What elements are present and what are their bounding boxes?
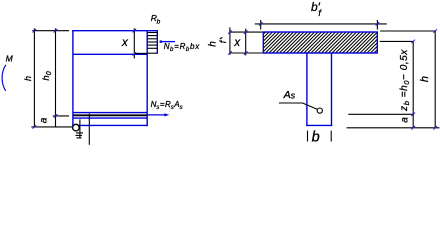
tick b'f right [376, 22, 380, 26]
extension at compression zone bottom [134, 52, 147, 54]
extension line rebar level (right) [348, 113, 413, 115]
dimension line h0 (inner vertical) [55, 28, 57, 127]
tick h bottom (right) [433, 126, 437, 130]
rebar band lower blue line [73, 117, 147, 119]
section bottom edge [72, 124, 148, 126]
web right edge [331, 53, 333, 126]
stress block strip right edge (blue) [156, 30, 158, 54]
neutral axis / compression zone bottom line [73, 53, 147, 55]
extension line h top (flange top level) [380, 30, 436, 32]
dimension line h (left outer vertical) [33, 28, 35, 127]
svg-text:h: h [207, 41, 218, 47]
box bottom horizontal [229, 52, 262, 54]
anchor hatch marks [76, 132, 83, 134]
extension line bottom (right) [347, 127, 440, 129]
web of T-beam (blue) [306, 53, 332, 126]
tick b'f left [259, 22, 263, 26]
svg-text:M: M [6, 54, 14, 64]
web left edge [306, 53, 308, 126]
dimension line h (outer right vertical) [434, 31, 436, 129]
leader As diagonal [303, 103, 318, 109]
box top horizontal [229, 31, 262, 33]
svg-text:a: a [39, 117, 50, 123]
rebar anchor circle (bottom-left of section) [73, 124, 80, 131]
section right edge [146, 30, 148, 126]
label h'f (rotated) [207, 37, 228, 46]
force Ns arrow [147, 114, 166, 116]
ticks on box [228, 30, 232, 34]
svg-text:b: b [312, 129, 320, 145]
dimension line b'f (top) [255, 23, 387, 25]
extension line top (y=30.7) [32, 30, 69, 32]
section outline (blue rectangle) [72, 30, 158, 126]
tick x top [133, 29, 137, 33]
svg-text:As: As [283, 89, 296, 101]
tick zb bottom / a top [411, 113, 415, 117]
tick a bottom [411, 126, 415, 130]
anchor vertical line [79, 119, 81, 138]
b dimension tick left [307, 131, 309, 142]
tick h top [33, 29, 37, 33]
dimension line x (vertical, in compression zone) [133, 28, 135, 58]
extension line reinforcement level [53, 115, 69, 117]
box left vertical (h'f dim line) [229, 27, 231, 54]
section left edge [72, 30, 74, 126]
tick h top (right) [433, 29, 437, 33]
tick h0 top [54, 29, 58, 33]
flange (hatched) [263, 32, 377, 53]
tick h0 at reinforcement [54, 114, 58, 118]
leader vertical line [88, 114, 90, 145]
box right vertical (x dim line) [245, 29, 247, 56]
svg-text:h: h [419, 76, 431, 82]
rebar centroid line (black, thick) [73, 114, 147, 116]
stress block hatch lines [147, 33, 157, 54]
b dimension tick right [330, 131, 332, 142]
extension line bottom [31, 126, 72, 128]
web bottom edge [306, 124, 332, 126]
svg-text:h: h [23, 76, 33, 81]
extension tick right of b'f [376, 20, 378, 30]
moment arc M [2, 65, 6, 91]
tick zb top [411, 40, 415, 44]
section top edge (extends over stress strip) [72, 30, 158, 32]
force Nb line [161, 41, 175, 43]
leader As horizontal [279, 102, 303, 104]
dimension line zb / a (inner right vertical) [412, 41, 414, 127]
tick h bottom [33, 125, 37, 129]
extension tick left of b'f [260, 20, 262, 30]
svg-text:a: a [399, 117, 410, 123]
extension line zb top (mid depth of x) [380, 40, 414, 42]
rebar circle As [317, 108, 322, 113]
force Nb application dot [160, 40, 162, 42]
tick x bottom [133, 52, 137, 56]
rebar band upper blue line [73, 112, 147, 114]
